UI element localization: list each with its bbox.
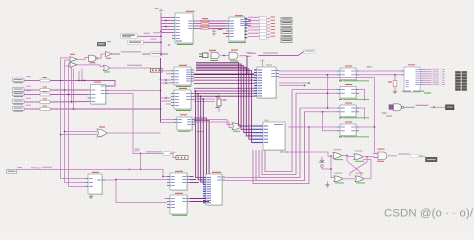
ground R6 (394, 87, 396, 90)
junction (60, 134, 61, 135)
junction (327, 93, 328, 94)
junction (160, 79, 161, 80)
tiny label right (197, 130, 204, 133)
power flag opto1 (367, 66, 372, 69)
input terminal J2 (13, 88, 25, 92)
wire G6 out (221, 55, 230, 57)
port box 6 (281, 39, 292, 42)
wire G13 out (343, 178, 355, 180)
label box dark 2 (426, 157, 438, 161)
wire box to U4 (162, 70, 171, 72)
U21 right stubs (190, 176, 194, 178)
wires U1 to RN1 (196, 20, 201, 22)
wire vertical net5 (73, 69, 75, 109)
wire row4 to U5 (50, 101, 88, 104)
junction (68, 94, 69, 95)
junction (160, 31, 161, 32)
wire riser4 to opto3b (305, 111, 338, 113)
tiny green text (424, 93, 431, 94)
gate U19:A (97, 129, 107, 137)
value label U9 (178, 130, 190, 133)
wire G7 to bus (246, 56, 248, 74)
input terminal J1 (13, 78, 25, 82)
gate U15:B (354, 154, 363, 160)
wire rail to U1 pins (161, 17, 172, 19)
gate U15:A (333, 153, 342, 159)
power flag U7 (261, 60, 265, 62)
wire G9 in (65, 131, 98, 133)
junction (330, 168, 331, 169)
wire G1 out (78, 58, 89, 60)
wire gate out (242, 126, 252, 135)
net flag row 4 (245, 27, 248, 28)
wire U23 out (225, 177, 259, 179)
net flag row 6 (245, 34, 248, 35)
connector 3dot box A (151, 68, 163, 72)
value label U17 (402, 91, 411, 92)
junction (394, 74, 395, 75)
junction (115, 179, 116, 180)
wire SCL (137, 35, 161, 37)
wire G5 out (110, 67, 150, 69)
wire riser3 to opto3 (300, 107, 337, 109)
wire G14 feedback (363, 160, 371, 179)
junction (78, 80, 79, 81)
net flag row 5 (245, 31, 248, 32)
cross couple wire 2 (350, 157, 367, 176)
junction (71, 101, 72, 102)
net label box (151, 52, 162, 56)
refdes U5 (94, 81, 101, 84)
junction (327, 74, 328, 75)
wire opto3 out (359, 108, 365, 120)
IC U21 (170, 173, 187, 190)
junction (246, 74, 247, 75)
wire U5 out2 (109, 94, 134, 152)
cap C2 labels (135, 148, 140, 151)
wire G2 to G5 (78, 65, 104, 66)
junction (129, 169, 130, 170)
wire latch out (363, 156, 378, 159)
junction (330, 155, 331, 156)
IC U7 (257, 67, 276, 98)
IC U17 (404, 67, 420, 92)
junction (64, 89, 65, 90)
wire G8 out (404, 106, 415, 108)
junction (64, 131, 65, 132)
value label U2 (228, 42, 246, 43)
wire U7 out5 (279, 85, 305, 87)
wire U5 out (109, 90, 161, 92)
input terminal J3 (13, 92, 25, 96)
port box 4 (281, 30, 292, 33)
wire XTAL (258, 51, 304, 55)
junction (366, 156, 367, 157)
refdes U12 (274, 124, 283, 125)
gate U18:A nand (389, 105, 393, 110)
wire row5 (50, 108, 161, 110)
net label box bottom (7, 170, 17, 174)
net name MOSI text (121, 50, 141, 53)
junction (165, 79, 166, 80)
IC opto U15 (340, 105, 356, 117)
input terminal J5 (13, 107, 25, 111)
gate U16:B (355, 176, 364, 182)
wires U17 outputs with net labels (423, 69, 432, 71)
junction (322, 111, 323, 112)
wire U22 in (164, 198, 167, 200)
net flag row 1 (245, 18, 248, 19)
wire riser1 to opto2 (292, 89, 337, 91)
net label DAC_OUT box (121, 33, 137, 38)
U12 left bus pins (252, 125, 263, 127)
wire opto1 out (359, 70, 404, 72)
wire U9 in (161, 119, 175, 121)
ground below C1 (212, 33, 215, 35)
junction (238, 88, 239, 89)
tiny text (107, 41, 111, 42)
value label 74HC595 (177, 44, 193, 45)
refdes U17 (408, 63, 415, 66)
wire U9 to gate (195, 120, 232, 125)
wire long row2 (279, 74, 337, 76)
cross couple wire 1 (347, 156, 361, 176)
ground latch (327, 183, 329, 185)
wire row3 to U5 (50, 94, 88, 96)
wires U2 outputs (248, 19, 251, 21)
refdes U9 (180, 113, 187, 116)
IC U22 (170, 195, 187, 214)
refdes U6:A (70, 53, 75, 56)
net name text (143, 32, 150, 35)
wire U7 out4 (279, 82, 309, 84)
bus U9 down (194, 118, 207, 189)
junction (308, 82, 309, 83)
resistor R3 (24, 94, 40, 96)
wire G4 to label (112, 53, 120, 55)
wire stub G5a (78, 71, 80, 81)
refdes U8 (179, 88, 187, 89)
wire link x327 (327, 75, 329, 108)
pin numbers U1 (176, 41, 182, 42)
wire G9 out (107, 132, 161, 134)
wire vertical net3 (68, 64, 70, 187)
wire U21 in2 (116, 179, 167, 181)
value label U8 (176, 110, 191, 111)
refdes U1 (186, 10, 195, 13)
wire U8 in (161, 97, 172, 99)
wire rail mid vertical (160, 58, 162, 123)
resistor R5 (24, 108, 40, 110)
port box 2 (281, 21, 292, 24)
power VCC (159, 10, 163, 12)
wire C1 down (213, 31, 215, 33)
refdes U20 (92, 172, 99, 173)
net flag row 3 (245, 24, 248, 25)
wire U7 to opto1 (279, 70, 337, 72)
wire label row (141, 153, 164, 155)
refdes U22 (175, 193, 183, 194)
wire row2 to U5 (50, 89, 88, 91)
refdes U2 (235, 15, 243, 16)
wire VCC vertical rail (160, 13, 162, 56)
ground U15A (321, 159, 323, 161)
connector 3dot box B (176, 156, 188, 160)
junction (60, 80, 61, 81)
wire continues (142, 53, 150, 55)
refdes U7 (266, 64, 272, 67)
U22 right stubs (190, 198, 207, 200)
junction (374, 126, 375, 127)
IC U1 (175, 13, 193, 43)
wire vertical to bottom net (140, 154, 142, 170)
wire opto4 out (359, 126, 375, 128)
junction (160, 53, 161, 54)
junction (165, 82, 166, 83)
value label U4 (176, 86, 191, 87)
wire U20 out (105, 180, 167, 203)
wire to VCC rail (162, 53, 169, 55)
gate U7:A small (106, 52, 112, 57)
gate U6:A (70, 57, 77, 62)
wire long row3 (279, 78, 378, 154)
junction via (168, 44, 170, 46)
resistor R6 (394, 75, 396, 81)
wire SDA (143, 41, 161, 43)
power 5V flag (321, 165, 324, 168)
gate U6:B (70, 62, 77, 67)
gate U24:A (378, 152, 387, 160)
port box 1 (281, 18, 292, 21)
IC opto U13 (340, 68, 356, 80)
wire row1 hook (50, 81, 115, 87)
junction (165, 20, 166, 21)
wire vertical net2 (64, 60, 66, 183)
junction (160, 90, 161, 91)
gate U6:C (89, 55, 96, 61)
junction (346, 155, 347, 156)
net label small box (164, 152, 171, 156)
junction (160, 42, 161, 43)
port box 3 (281, 27, 292, 30)
gate U16:A (334, 176, 343, 182)
junction (73, 108, 74, 109)
U23 left bus pins (203, 177, 206, 179)
ground U20 (90, 195, 92, 197)
wire G3 out (98, 54, 106, 58)
junction (308, 126, 309, 127)
junction (160, 108, 161, 109)
resistor R4 (24, 101, 40, 103)
wire y127 to opto4 (288, 126, 337, 128)
resistor pack RN1 (201, 20, 209, 21)
gate U3:B (229, 52, 238, 59)
value label U22 (172, 215, 187, 216)
wire crystal row2 (194, 101, 215, 103)
wire crystal row1 (194, 98, 215, 100)
tiny red text (223, 33, 227, 34)
wire U4 in a (161, 79, 172, 81)
wire vertical net4 (71, 66, 73, 102)
wire harness to U20 (61, 178, 86, 180)
IC U12 (263, 122, 285, 150)
wire G2 inputs (69, 63, 71, 65)
junction (165, 97, 166, 98)
junction (248, 93, 249, 94)
junction (140, 153, 141, 154)
label box dark (446, 105, 455, 110)
bus to U12 (196, 63, 252, 127)
junction (304, 85, 305, 86)
resistor R2 (24, 89, 40, 91)
wire to box (422, 155, 426, 157)
junction (84, 80, 85, 81)
IC U9 (177, 117, 192, 130)
IC U5 (91, 85, 106, 105)
wire latch vertical (331, 156, 334, 177)
bus taps to U23 (196, 91, 204, 178)
port box 5 (281, 35, 292, 38)
net flag row 7 (245, 37, 248, 38)
tiny texts (246, 51, 252, 54)
U7 left bus pins (254, 69, 257, 71)
refdes U21 (175, 171, 183, 172)
wire bottom long (16, 169, 171, 176)
tiny text vcc (386, 116, 392, 117)
wire elbow to 3dot (170, 154, 176, 158)
refdes U4 (179, 65, 187, 66)
wire link x322 (323, 112, 338, 131)
wire crystal (194, 94, 219, 100)
connector J6 block (455, 71, 460, 73)
IC U2 (229, 17, 245, 41)
wire 5V to latch (322, 167, 331, 169)
junction (162, 176, 163, 177)
input terminal J4 (13, 100, 25, 104)
junction (140, 169, 141, 170)
junction (223, 55, 224, 56)
wire riser2 to opto2b (296, 92, 337, 94)
wire opto2 out (359, 90, 365, 102)
junction (165, 26, 166, 27)
gate U7:B (103, 65, 109, 70)
junction (327, 107, 328, 108)
wire G15 out (388, 155, 397, 157)
crystal X1 (217, 99, 221, 106)
IC U20 (88, 174, 102, 194)
wire G15 in (373, 153, 378, 155)
wires U4-U8 to U7 (194, 77, 254, 79)
net label SDA box (128, 40, 144, 44)
wire G7 out (240, 55, 248, 57)
svg-text:CSDN @(o · · o)/: CSDN @(o · · o)/ (384, 207, 474, 219)
refdes U23 (212, 172, 221, 173)
resistor R1 (24, 80, 40, 82)
wire vertical net1 (60, 58, 62, 179)
wire G1 inputs (61, 57, 71, 59)
wire G11 out (342, 156, 354, 157)
junction (243, 90, 244, 91)
gate U3:A input part (203, 53, 209, 58)
IC opto U16 (340, 124, 356, 136)
bus U12 loop risers (253, 127, 309, 184)
junction (81, 80, 82, 81)
IC U8 (174, 90, 191, 109)
bus thick horizontal (194, 73, 254, 75)
IC U23 (206, 174, 222, 205)
net label box XTAL (304, 49, 315, 53)
wire U12 out (288, 152, 333, 156)
net flag row 2 (245, 21, 248, 22)
IC U4 (174, 67, 191, 85)
wires RN1 to U2 (209, 20, 226, 22)
gate U3:A body (211, 52, 219, 59)
capacitor C1 (213, 29, 216, 31)
wire stub G5b (81, 69, 83, 81)
label DAC dark box (97, 42, 106, 46)
junction (160, 36, 161, 37)
gate U10:A (232, 123, 242, 130)
IC opto U14 (340, 87, 356, 99)
